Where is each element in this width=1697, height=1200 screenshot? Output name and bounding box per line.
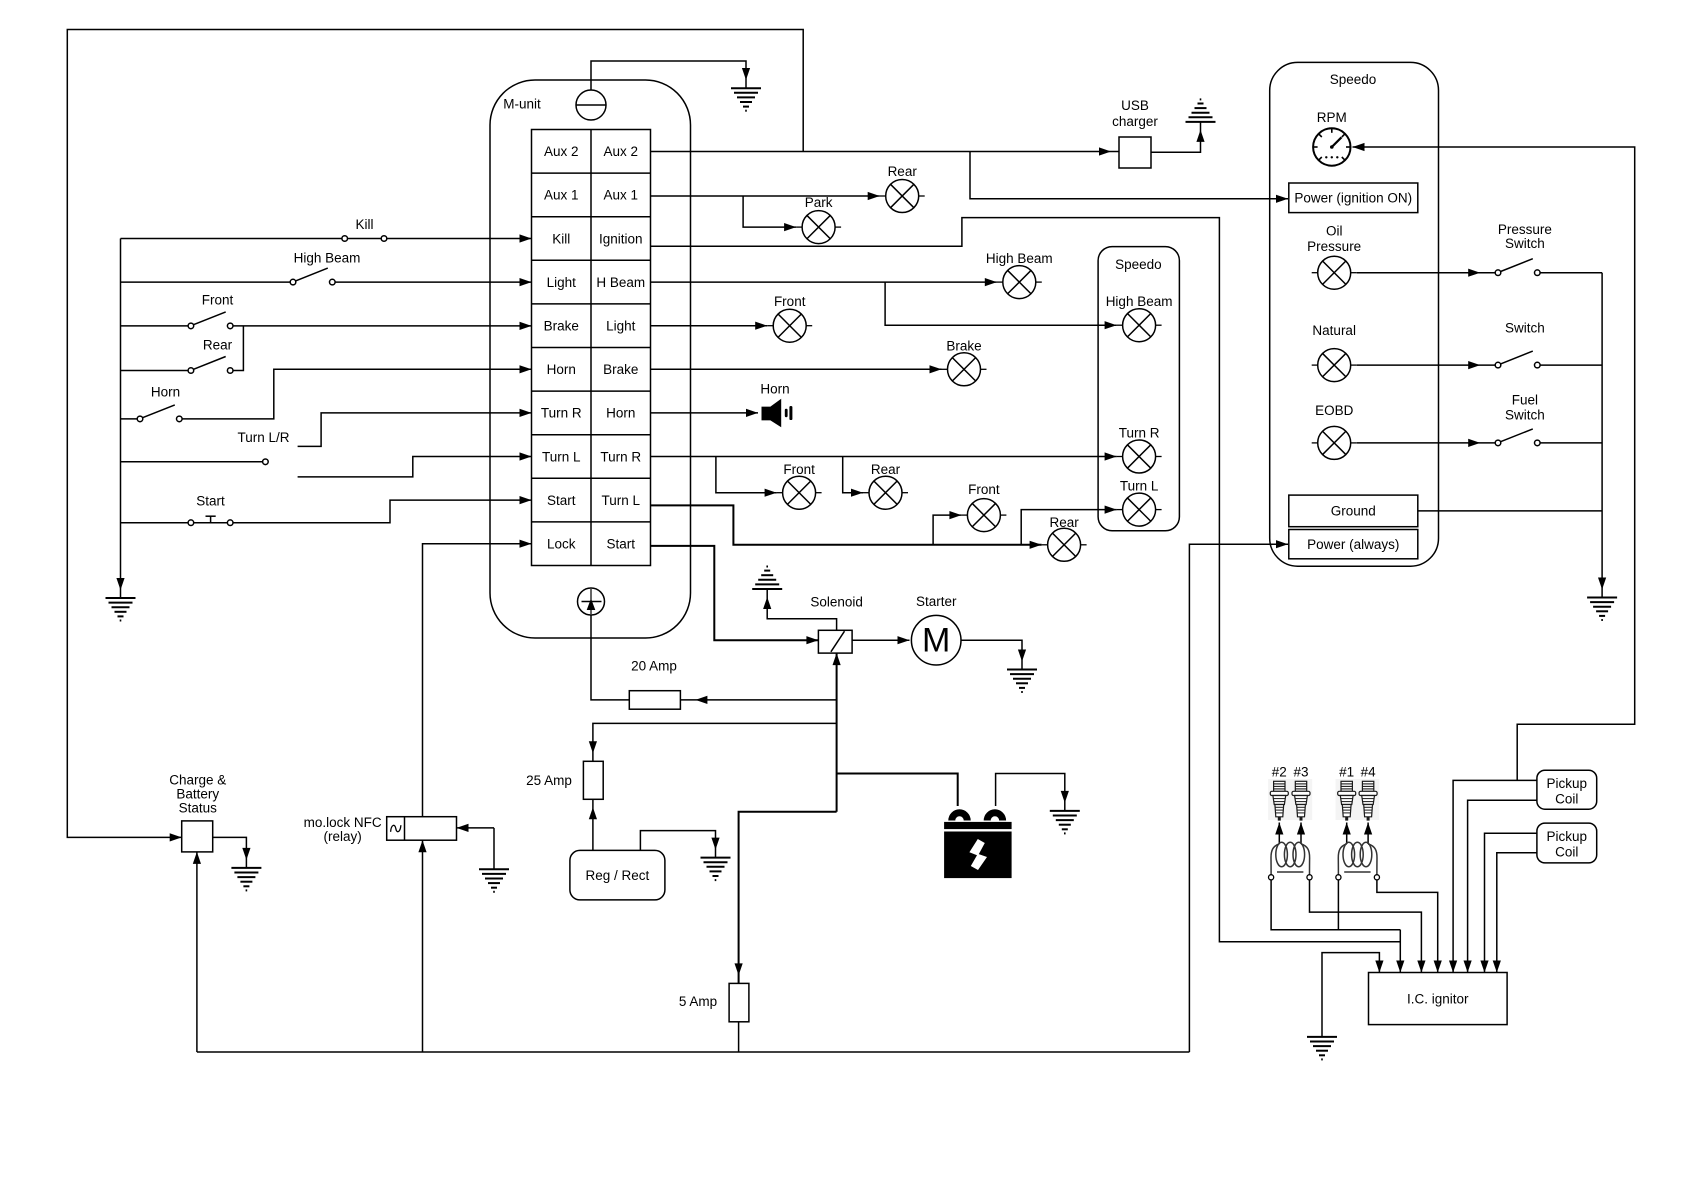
wire coil 1 to plug 2 [1278,823,1280,845]
svg-text:(relay): (relay) [323,829,361,844]
solenoid [810,595,863,654]
wire trunk to 25 Amp fuse [593,723,837,761]
pickup coil 2 [1537,823,1597,863]
svg-text:Power (always): Power (always) [1307,537,1399,552]
svg-text:Fuel: Fuel [1512,393,1538,408]
wire charge status to ground [213,837,247,868]
wire branch to speedo high beam [885,282,1117,325]
svg-text:25 Amp: 25 Amp [526,773,572,788]
lamp Speedo Turn R [1117,426,1162,473]
wire 5 Amp fuse to always-on rail [738,1022,740,1052]
ground [1307,1037,1337,1060]
lamp Rear (turn R) [863,462,908,509]
wire ground trunk to ground [1601,273,1603,598]
switch Kill [342,217,387,241]
svg-text:Horn: Horn [606,406,635,421]
switch Start (push button) [188,494,233,526]
ground [731,88,761,111]
wire EOBD lamp to fuel switch [1357,442,1496,444]
ignition coil 1 (cyl 2-3) [1269,842,1313,880]
battery [944,813,1012,878]
switch Horn [137,385,182,422]
svg-text:Switch: Switch [1505,321,1545,336]
svg-text:Front: Front [774,294,806,309]
svg-text:Light: Light [606,319,636,334]
wire branch to rear turn R lamp [843,457,863,493]
wire coil 2 to plug 4 [1367,823,1369,845]
lamp Front (running light) [767,294,812,342]
wire turn switch throw R to M-unit Turn R [298,413,532,447]
svg-text:Ground: Ground [1331,504,1376,519]
wire mo.lock to M-unit Lock [423,544,532,817]
svg-text:Starter: Starter [916,594,957,609]
svg-text:Rear: Rear [203,337,233,352]
wire horn switch to M-unit Horn [182,369,531,419]
wire neutral switch to ground trunk [1540,364,1602,366]
svg-text:Front: Front [202,293,234,308]
RPM gauge [1313,110,1350,166]
svg-text:H Beam: H Beam [596,275,645,290]
wire Turn R output to speedo turn R lamp [651,456,1117,458]
svg-text:Ignition: Ignition [599,231,643,246]
wire Turn L output rail [651,505,1042,544]
wire left bus to ground [120,239,122,599]
svg-text:Start: Start [606,537,635,552]
wire Start output to solenoid [651,546,819,640]
wire turn switch input [121,461,263,463]
M-unit top connector [576,90,606,120]
wire rear-brake switch input [121,370,189,372]
svg-text:Horn: Horn [547,362,576,377]
wire battery trunk to solenoid [836,653,838,812]
svg-text:Switch: Switch [1505,407,1545,422]
M-unit terminal table [532,130,651,566]
svg-text:Switch: Switch [1505,236,1545,251]
wire front-brake switch input [121,325,189,327]
wire mo.lock relay to ground [457,828,495,869]
lamp Brake [942,338,987,386]
ground (inverted) [752,567,782,590]
svg-text:Solenoid: Solenoid [810,595,863,610]
svg-text:M-unit: M-unit [503,97,541,112]
wire Brake output to brake lamp [651,368,942,370]
wire Aux2 branch to Power ignition ON [970,152,1288,199]
fuse 20 Amp [629,658,680,709]
wire coil 1 to ignitor [1310,880,1422,973]
svg-text:Turn L: Turn L [601,493,640,508]
svg-text:Pressure: Pressure [1498,222,1552,237]
lamp Front (turn L) [961,482,1006,531]
wire coil supply common [1271,880,1400,930]
spark plug #1 [1336,764,1358,820]
wire rail to mo.lock relay [422,840,424,1052]
horn speaker [760,382,792,428]
lamp Speedo High Beam [1106,294,1173,342]
wire 20 Amp fuse to M-unit power [591,616,629,700]
svg-text:Aux 2: Aux 2 [544,144,579,159]
wire battery negative to ground [996,774,1065,811]
wire branch to park lamp [743,196,796,227]
svg-text:Turn R: Turn R [541,406,582,421]
svg-text:Turn R: Turn R [600,449,641,464]
pickup coil 1 [1537,770,1597,809]
svg-text:Aux 2: Aux 2 [603,144,638,159]
lamp High Beam [986,251,1053,298]
svg-text:High Beam: High Beam [1106,294,1173,309]
wire supply to I.C. ignitor [1399,930,1401,973]
svg-text:Pressure: Pressure [1307,239,1361,254]
wire rail to speedo Power always [1189,544,1288,1052]
spark plug #3 [1290,764,1312,820]
ignition coil 2 (cyl 1-4) [1336,842,1380,880]
wire reg/rect to ground [640,831,715,858]
ground [1007,670,1037,693]
wire Aux2 branch to charge status box [67,30,803,838]
svg-text:Brake: Brake [946,338,981,353]
switch Front (brake) [188,293,233,329]
svg-text:Coil: Coil [1555,845,1578,860]
wire trunk to 5 Amp fuse [739,812,837,984]
Ground terminal [1289,495,1418,527]
ground (inverted) [1186,99,1216,122]
svg-text:Aux 1: Aux 1 [603,188,638,203]
wire kill switch to M-unit Kill [387,238,532,240]
lamp Natural [1312,323,1357,382]
svg-text:#1: #1 [1339,764,1354,779]
Power (always) terminal [1289,530,1418,559]
svg-text:EOBD: EOBD [1315,403,1354,418]
svg-text:Park: Park [805,195,833,210]
wire coil 1 to plug 3 [1300,823,1302,845]
wire pickup coil to RPM gauge [1353,147,1635,780]
wire trunk to 20 Amp fuse [680,699,836,701]
svg-text:Power (ignition ON): Power (ignition ON) [1294,191,1412,206]
svg-text:Start: Start [547,493,576,508]
wire ground terminal to trunk [1418,510,1602,512]
mo.lock NFC relay [304,815,457,844]
wire high-beam switch to M-unit Light [335,281,531,283]
wire Horn output to horn speaker [651,412,759,414]
svg-text:High Beam: High Beam [986,251,1053,266]
wire pickup 2 A to ignitor [1485,833,1537,972]
wire front-brake switch to M-unit Brake [233,325,532,327]
svg-text:Pickup: Pickup [1547,829,1588,844]
switch High Beam [290,250,360,285]
switch Rear (brake) [188,337,233,373]
svg-text:Horn: Horn [151,385,180,400]
lamp Oil Pressure [1307,224,1361,290]
svg-text:USB: USB [1121,98,1149,113]
ground [106,598,136,621]
wire H Beam output to high beam lamp [651,281,997,283]
lamp Front (turn R) [777,462,822,509]
wire pressure switch to ground trunk [1540,272,1602,274]
wire rail to charge status module [196,852,198,1052]
svg-text:Light: Light [547,275,577,290]
svg-text:Turn R: Turn R [1119,426,1160,441]
wire starter to ground [961,640,1022,669]
svg-text:Kill: Kill [355,217,373,232]
svg-text:Start: Start [196,494,225,509]
svg-text:#3: #3 [1293,764,1308,779]
svg-text:Rear: Rear [1049,515,1079,530]
svg-text:Speedo: Speedo [1330,72,1377,87]
wire M-unit top connector to ground [591,61,746,90]
svg-text:Front: Front [783,462,815,477]
wire natural lamp to switch [1357,364,1496,366]
wire USB charger to ground [1151,122,1201,152]
switch Turn L/R common [237,430,289,465]
svg-text:RPM: RPM [1317,110,1347,125]
lamp Speedo Turn L [1117,479,1162,527]
svg-text:Rear: Rear [871,462,901,477]
wire solenoid to ground [767,589,836,630]
wire Light output to front lamp [651,325,768,327]
svg-text:mo.lock NFC: mo.lock NFC [304,815,382,830]
wire oil pressure lamp to pressure switch [1357,272,1496,274]
svg-text:M: M [922,622,950,660]
wire coil 2 to ignitor [1377,880,1438,973]
wire turn switch throw L to M-unit Turn L [298,457,532,477]
svg-text:Battery: Battery [176,786,219,801]
lamp EOBD [1312,403,1357,459]
Speedo gauge panel [1270,62,1439,566]
wire horn switch input [121,418,138,420]
ground [231,868,261,891]
svg-text:Front: Front [968,482,1000,497]
svg-text:Brake: Brake [603,362,638,377]
svg-text:Turn L: Turn L [1120,479,1159,494]
wire reg/rect to 25 Amp fuse [592,799,594,850]
wire trunk to battery positive [837,774,958,807]
svg-text:I.C. ignitor: I.C. ignitor [1407,991,1469,1006]
wire ignitor ground lead [1322,953,1379,1037]
svg-text:Coil: Coil [1555,791,1578,806]
ground [701,858,731,881]
svg-text:#4: #4 [1361,764,1377,779]
lamp Park [796,195,841,244]
wire coil 2 to plug 1 [1346,823,1348,845]
spark plug #2 [1268,764,1290,820]
svg-text:Speedo: Speedo [1115,257,1162,272]
svg-text:High Beam: High Beam [294,250,361,265]
svg-text:Lock: Lock [547,537,576,552]
wire Aux 2 output to USB charger [651,151,1120,153]
starter motor M1 [911,594,961,665]
regulator rectifier [570,850,665,900]
wire pickup 2 B to ignitor [1497,853,1537,973]
switch (neutral) [1495,321,1545,368]
svg-text:Oil: Oil [1326,224,1343,239]
M-unit enclosure [490,80,691,638]
switch Pressure [1495,222,1552,276]
wire Aux 1 output to rear park lamp [651,195,880,197]
svg-text:Turn L: Turn L [542,449,581,464]
ground [1050,811,1080,834]
wire always-on rail [197,1051,1190,1053]
svg-text:Turn L/R: Turn L/R [237,430,289,445]
svg-text:#2: #2 [1272,764,1287,779]
Power (ignition ON) terminal [1289,183,1418,213]
wire branch to front turn R lamp [716,457,777,493]
wire fuel switch to ground trunk [1540,442,1602,444]
svg-text:20 Amp: 20 Amp [631,658,677,673]
wire branch to speedo turn L lamp [1021,510,1116,545]
svg-text:Kill: Kill [552,231,570,246]
wire start button to M-unit Start [233,500,532,523]
svg-text:Reg / Rect: Reg / Rect [586,868,650,883]
wire branch to front turn L lamp [933,515,961,545]
charge and battery status module [169,773,226,852]
wire solenoid to starter [852,639,909,641]
svg-text:Natural: Natural [1312,323,1356,338]
svg-text:Status: Status [179,800,218,815]
svg-text:charger: charger [1112,114,1158,129]
wire pickup 1 B to ignitor [1468,800,1537,972]
svg-text:Pickup: Pickup [1547,776,1588,791]
fuse 25 Amp [526,761,603,799]
ground [1587,598,1617,621]
I.C. ignitor [1369,973,1508,1025]
wire high-beam switch input [121,281,291,283]
wire kill switch input [121,238,342,240]
lamp Rear (park) [880,164,925,213]
USB charger box [1112,98,1158,168]
wire Ignition output to ignitor feed [651,218,1401,942]
svg-text:Horn: Horn [760,382,789,397]
fuse 5 Amp [679,983,749,1021]
svg-text:Rear: Rear [888,164,918,179]
svg-text:Brake: Brake [544,319,579,334]
wire start button input [121,522,189,524]
wire rear-brake switch join [233,326,243,371]
Speedo cluster box [1098,247,1179,531]
spark plug #4 [1357,764,1379,820]
M-unit bottom connector [578,588,605,615]
switch Fuel [1495,393,1545,446]
wire pickup 1 A to ignitor [1453,780,1537,972]
ground [479,869,509,892]
lamp Rear (turn L) [1042,515,1087,561]
svg-text:Aux 1: Aux 1 [544,188,579,203]
svg-text:5 Amp: 5 Amp [679,994,717,1009]
